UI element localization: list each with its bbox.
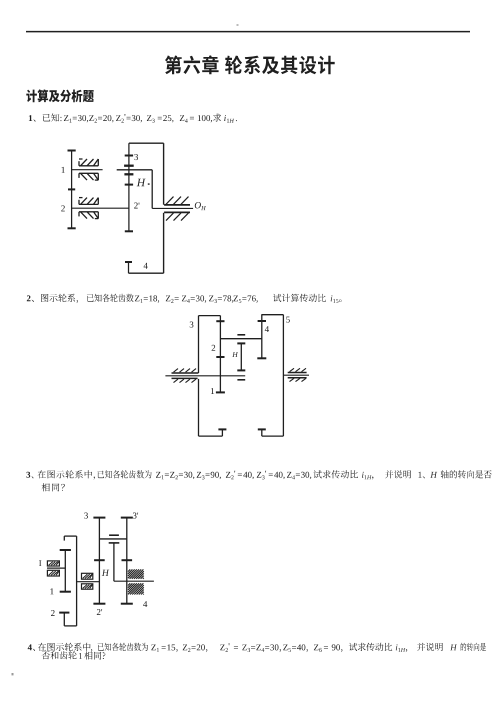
heading (26, 89, 94, 102)
D3 mesh upper mark (109, 534, 119, 536)
D3 T stem (113, 543, 115, 581)
D3 label H (102, 570, 109, 576)
D1 gear4 hook (128, 262, 130, 273)
D2 ring3 bottom (199, 435, 223, 437)
D1 gear2 hatch lower (79, 211, 98, 213)
D2 ring3 hook (221, 429, 223, 436)
D3 output axis (114, 580, 154, 582)
D3 label 2 (51, 610, 55, 616)
D1 label OH (195, 202, 206, 210)
D1 gear1 axis line (72, 169, 103, 171)
D3 T bar (109, 542, 120, 544)
D3 fixed hatch lower (128, 583, 130, 585)
D2 ring5 bottom (262, 435, 284, 437)
D2 label 1 (211, 388, 214, 394)
D1 gear1 hatch upper (79, 165, 98, 167)
D2 label 2 (212, 345, 216, 351)
D3 mesh line 3-3p (99, 538, 126, 540)
D1 bearing upper line (164, 204, 190, 206)
D3 input shaft line (47, 567, 65, 569)
D1 label 2 (61, 205, 65, 211)
D2 shaft S12 (219, 316, 221, 393)
problem 2 statement (27, 294, 78, 303)
problem 1 statement (29, 114, 62, 122)
D3 input hatch lower (47, 570, 59, 576)
D2 label 3 (190, 322, 194, 328)
D3 gear2 right (76, 536, 78, 626)
D2 shaft S4 (261, 315, 263, 359)
D1 planet shaft S2 (128, 143, 130, 231)
D3 gear2 top (64, 535, 76, 537)
D1 label 3 (134, 154, 138, 160)
problem 4 statement line2 (42, 651, 106, 660)
D1 label 1 (62, 167, 65, 173)
D1 bearing hatch upper (166, 197, 174, 205)
page top speck (237, 24, 239, 26)
D2 label H (232, 352, 238, 357)
D3 input hatch upper (47, 561, 59, 566)
D3 label 4 (143, 601, 147, 607)
D1 carrier vert (151, 170, 153, 209)
D3 shaft S3p (126, 518, 128, 604)
D3 label 2p (97, 609, 102, 615)
D3 label 1 (50, 588, 53, 594)
D2 right bearing upper (288, 372, 307, 374)
D2 H link (240, 343, 242, 370)
problem 3 statement line1 (26, 472, 33, 479)
problem 3 statement line2 (42, 483, 65, 491)
D2 left bearing upper (172, 372, 199, 374)
D3 fixed hatch upper (128, 569, 130, 571)
D1 bearing lower line (164, 211, 190, 213)
D3 shaft S1 (64, 550, 66, 592)
D1 ring frame top (129, 142, 164, 144)
D1 label 2p (134, 203, 139, 209)
D3 planet axis (77, 581, 100, 583)
D1 carrier top (117, 169, 153, 171)
D3 shaft H (98, 518, 100, 604)
D2 right bearing lower (288, 377, 307, 379)
D2 main axis (165, 375, 245, 377)
D1 label H (137, 179, 146, 187)
D2 left bearing lower (172, 377, 198, 379)
D3 label 3 (84, 513, 88, 519)
D3 label 3p (133, 513, 138, 519)
D1 ring frame right (163, 143, 165, 205)
D3 mid hatch lower (82, 584, 93, 589)
top rule (26, 31, 470, 33)
title (165, 55, 335, 74)
D1 shaft S1 (71, 151, 73, 229)
D1 gear1 hatch lower (79, 172, 98, 174)
D2 label 4 (265, 326, 269, 332)
D2 right axis (283, 374, 309, 376)
D1 gear2 axis line (72, 207, 129, 209)
D3 label I (39, 560, 41, 566)
D2 ring5 hook (261, 429, 263, 436)
D2 H upper mark (237, 334, 245, 336)
D2 label 5 (286, 317, 290, 323)
D2 carrier line (220, 338, 261, 340)
D1 output axis (152, 207, 193, 209)
D2 ring5 top (261, 314, 283, 316)
D3 gear2 hook (63, 613, 65, 626)
D2 ring3 left (198, 316, 200, 373)
D1 bearing hatch lower (166, 213, 174, 221)
problem 4 statement line1 (28, 644, 35, 651)
D2 ring3 top (199, 315, 221, 317)
D2 ring5 right (282, 315, 284, 436)
D3 mid hatch upper (82, 573, 93, 579)
D1 label 4 (144, 263, 148, 269)
D2 axis lower mark (237, 379, 245, 381)
page bottom speck (12, 673, 14, 675)
D3 gear2 bottom (64, 625, 76, 627)
D1 ring frame bottom (129, 272, 164, 274)
D1 gear2 hatch upper (79, 203, 98, 205)
